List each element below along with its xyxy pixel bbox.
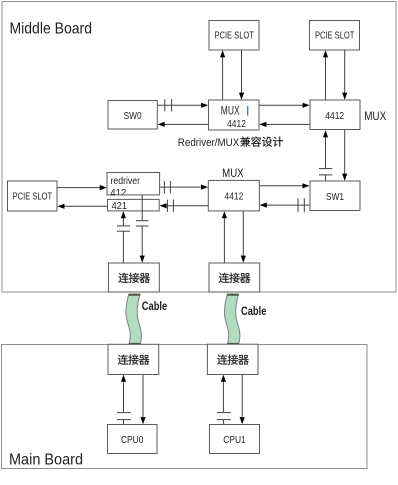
- board Main Board outline: [2, 345, 368, 469]
- svg-text:Cable: Cable: [241, 306, 266, 318]
- wire MUX 4412 to 4412 top: [259, 103, 310, 108]
- wire 421 to connector M1 (up, with cap): [121, 211, 126, 263]
- svg-text:MUX: MUX: [222, 166, 244, 180]
- capacitor on SW1-4412 wire: [298, 198, 304, 212]
- wire PCIE SLOT C to redriver: [57, 185, 107, 190]
- wire 4412 to SW1 (down): [342, 130, 347, 181]
- box PCIE SLOT A: [209, 21, 259, 51]
- svg-text:PCIE SLOT: PCIE SLOT: [315, 31, 355, 42]
- capacitor on 4412-SW1 wire: [319, 169, 332, 175]
- capacitor on connector-CPU0 wire: [117, 413, 131, 420]
- wire 4412 to MUX 4412 bottom: [259, 122, 310, 127]
- capacitor on redriver-connector wire: [136, 221, 149, 226]
- wire PCIE SLOT A to MUX 4412 (up): [220, 50, 225, 100]
- text cursor in MUX box: [247, 106, 249, 116]
- wire MUX 4412 to PCIE SLOT A (down): [239, 50, 244, 100]
- wire connector B2 to CPU1 (down): [240, 375, 245, 425]
- box PCIE SLOT C: [8, 181, 58, 211]
- wire MUX 4412 to SW0 bottom: [158, 122, 209, 127]
- svg-text:redriver: redriver: [111, 176, 141, 187]
- capacitor on redriver-4412 wire: [164, 181, 170, 194]
- cable 1: [126, 294, 141, 344]
- svg-text:SW0: SW0: [124, 110, 142, 122]
- box MUX 4412 (U-mid row1): [209, 100, 260, 130]
- wire redriver to connector M1 (down, with cap): [140, 195, 145, 263]
- box redriver 412: [107, 173, 160, 200]
- box SW1: [310, 181, 360, 211]
- wire connector B2 to CPU1 (up, with cap): [221, 375, 226, 425]
- capacitor on 421-connector wire: [117, 226, 130, 231]
- svg-text:CPU1: CPU1: [223, 434, 246, 446]
- capacitor on SW0-MUX wire: [165, 99, 172, 111]
- box connector B1: [108, 344, 159, 374]
- svg-text:MUX: MUX: [364, 109, 386, 123]
- box 4412 row2: [208, 180, 259, 211]
- svg-text:SW1: SW1: [326, 191, 344, 203]
- svg-text:CPU0: CPU0: [121, 434, 144, 446]
- box CPU0: [108, 425, 158, 454]
- svg-text:4412: 4412: [325, 110, 344, 122]
- wire 4412 to PCIE SLOT B (down): [342, 50, 347, 100]
- wire 4412 row2 to connector M2 (up): [222, 211, 227, 263]
- svg-text:PCIE SLOT: PCIE SLOT: [214, 31, 254, 42]
- box 4412 row1: [310, 100, 360, 130]
- box CPU1: [210, 425, 260, 454]
- wire SW1 to 4412 row2 bottom: [260, 203, 310, 208]
- svg-text:421: 421: [112, 200, 128, 212]
- box connector M1: [109, 263, 160, 292]
- box 421: [108, 199, 160, 211]
- wire redriver to 4412 row2: [160, 185, 209, 190]
- box PCIE SLOT B: [310, 21, 360, 51]
- box SW0: [108, 101, 157, 130]
- svg-text:Middle Board: Middle Board: [10, 21, 93, 38]
- svg-text:PCIE SLOT: PCIE SLOT: [13, 192, 53, 203]
- wire 4412 to SW1 column (up): [323, 130, 328, 181]
- svg-text:4412: 4412: [225, 190, 244, 202]
- wire connector B1 to CPU0 (down): [140, 375, 145, 425]
- wire 4412 row2 to connector M2 (down): [241, 211, 246, 263]
- svg-text:Cable: Cable: [142, 301, 167, 313]
- wire 4412 row2 to SW1 top: [259, 183, 309, 188]
- wire connector B1 to CPU0 (up, with cap): [121, 375, 126, 425]
- board Middle Board outline: [2, 2, 396, 293]
- capacitor on 4412-421 wire: [167, 200, 173, 212]
- label Redriver/MUX compat design: [178, 137, 283, 149]
- box connector M2: [209, 263, 260, 292]
- svg-text:MUX: MUX: [221, 106, 240, 118]
- wire 4412 row2 to 421: [160, 203, 209, 208]
- wire 421 to PCIE SLOT C: [57, 204, 107, 209]
- wire SW0 to MUX 4412 top: [157, 103, 208, 108]
- wire PCIE SLOT B to 4412 (up): [323, 50, 328, 100]
- svg-text:Redriver/MUX: Redriver/MUX: [178, 137, 240, 149]
- capacitor on connector-CPU1 wire: [217, 413, 231, 420]
- svg-text:Main Board: Main Board: [9, 452, 83, 469]
- box connector B2: [207, 344, 258, 374]
- cable 2: [224, 294, 239, 344]
- svg-text:4412: 4412: [227, 118, 246, 130]
